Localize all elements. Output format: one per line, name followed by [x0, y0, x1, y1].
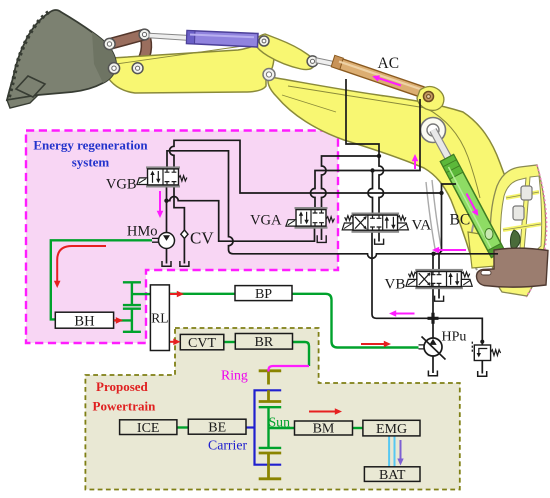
wire junction to VA top-left	[368, 171, 373, 214]
wire VGB bottom-left to HMo	[166, 186, 168, 233]
BC bottom oval detail	[485, 229, 493, 240]
green gear stem lower	[131, 309, 133, 332]
box RL	[150, 285, 169, 351]
wire VB to HPu	[432, 287, 434, 338]
wire relief valve entry	[481, 342, 483, 345]
svg-text:CV: CV	[190, 229, 214, 248]
BC cylinder rod	[433, 130, 450, 161]
green gear symbol top bar	[123, 281, 141, 283]
boom elbow pin	[421, 118, 446, 143]
red arrow RL to CVT	[170, 339, 181, 346]
bucket cylinder rod (white)	[149, 33, 190, 40]
olive planet bar lower	[259, 453, 282, 465]
valve VGB	[137, 166, 187, 187]
tank below HPu	[428, 371, 437, 376]
wire HMo junction to VGA bottom-left	[167, 197, 315, 242]
green link ICE to BE	[177, 426, 188, 428]
green shaft HMo to BH	[51, 240, 152, 319]
wire AC rod-side line down to VA	[346, 79, 384, 213]
svg-text:system: system	[72, 155, 110, 170]
green sun shaft vertical	[267, 407, 269, 448]
svg-text:BE: BE	[208, 421, 226, 436]
wire relief valve to tank	[481, 361, 483, 374]
bucket H-link (brown)	[110, 35, 145, 45]
svg-text:ICE: ICE	[137, 421, 160, 436]
valve VGA	[286, 207, 335, 229]
green link CVT to BR	[224, 341, 236, 343]
AC cylinder rod	[316, 58, 334, 67]
energy regeneration system region (pink)	[26, 131, 338, 344]
green gear link to RL	[132, 293, 151, 295]
cab pads (gray)	[521, 186, 532, 200]
magenta arrow on return line	[432, 247, 466, 254]
green sun shaft to BM	[269, 427, 295, 429]
magenta arrow near pump junction	[389, 310, 415, 317]
wire VA bottom drain to pump junction and relief valve	[372, 230, 482, 341]
wire VGB top-left drain down	[167, 151, 233, 254]
tank bracket VA	[375, 239, 384, 245]
relief valve	[474, 345, 500, 361]
svg-text:Powertrain: Powertrain	[93, 399, 157, 414]
box BH	[55, 312, 113, 329]
green link BR down to ring	[293, 342, 310, 366]
yellow arm (stick)	[103, 40, 274, 93]
tank below CV	[180, 261, 189, 266]
red arrow from HMo flow	[54, 246, 106, 288]
hydraulic motor HMo	[152, 233, 175, 249]
svg-text:VGB: VGB	[106, 177, 137, 193]
hydraulic pump HPu	[419, 337, 446, 360]
green shaft RL to BP to HPu	[169, 294, 418, 348]
box BR	[235, 334, 292, 351]
wire VA bottom stub	[378, 230, 380, 241]
bold cross junction at pump	[428, 313, 439, 324]
green sun bars	[259, 407, 282, 448]
svg-text:HPu: HPu	[442, 330, 467, 345]
arm inner line	[116, 45, 250, 64]
svg-text:BP: BP	[255, 287, 272, 302]
purple cylinder rear pin	[259, 36, 269, 46]
tank below HMo	[162, 261, 171, 266]
wire VGB top-right to boom cylinder upper port	[170, 140, 442, 193]
bucket body (olive)	[7, 10, 116, 100]
svg-text:VA: VA	[412, 218, 432, 234]
red arrow above BM	[309, 408, 342, 415]
box BM	[295, 421, 353, 437]
cab handrail	[471, 222, 477, 270]
proposed powertrain region (khaki)	[85, 328, 459, 490]
AC cylinder front pin	[307, 56, 318, 67]
wire main return line y=254	[233, 254, 498, 259]
wire AC line to VGA top-right	[322, 156, 380, 209]
bucket lower tail	[7, 95, 38, 108]
BC cylinder end cap	[488, 243, 505, 257]
linkage pins	[139, 29, 150, 40]
svg-text:Sun: Sun	[269, 415, 291, 430]
excavator cab body (yellow)	[490, 165, 545, 296]
arm/boom pivot pin	[263, 69, 275, 81]
wire VB bottom stub to tank	[438, 287, 440, 299]
box BAT	[364, 467, 420, 483]
bucket pins	[104, 38, 115, 49]
wire VGB bottom-right through check valve CV	[174, 186, 184, 263]
svg-text:BAT: BAT	[379, 468, 406, 483]
AC cylinder barrel (tan)	[332, 56, 424, 97]
box EMG	[363, 420, 420, 437]
svg-text:Energy regeneration: Energy regeneration	[33, 138, 148, 153]
excavator cab pink dotted clip edge	[526, 165, 547, 297]
wire HPu to tank	[432, 356, 434, 373]
red arrow RL to BP	[170, 291, 184, 298]
excavator boom (yellow, continuous band from arm to cab base)	[268, 77, 516, 260]
box CVT	[180, 334, 224, 351]
arm top bracket (yellow)	[255, 34, 314, 70]
box BE	[188, 419, 246, 435]
check valve CV	[181, 230, 188, 238]
svg-text:Carrier: Carrier	[208, 438, 247, 453]
svg-text:EMG: EMG	[376, 422, 407, 437]
wire VGA bottom stub to tank	[321, 228, 323, 240]
wire relief valve pilot dashed	[471, 342, 473, 353]
bucket teeth	[9, 11, 50, 97]
cab yellow foot columns	[468, 232, 496, 268]
BC cylinder barrel (green)	[440, 155, 504, 258]
olive ring gear bar	[259, 371, 282, 385]
valve VB	[406, 269, 472, 289]
blue carrier link from BE	[246, 426, 255, 428]
svg-text:HMo: HMo	[127, 224, 158, 240]
svg-text:RL: RL	[151, 311, 168, 326]
violet arrow EMG to BAT	[397, 440, 403, 466]
green gear stem upper	[131, 282, 133, 304]
svg-text:Ring: Ring	[221, 368, 248, 383]
green gear link from BH	[114, 319, 132, 321]
green link BM to EMG	[353, 427, 363, 429]
cab roll frame tubes (yellow)	[503, 192, 541, 230]
svg-text:CVT: CVT	[188, 336, 216, 351]
red arrow to HPu	[361, 341, 391, 348]
svg-text:BH: BH	[74, 313, 95, 329]
svg-text:VB: VB	[385, 277, 406, 293]
magenta arrow up near boom	[412, 154, 419, 169]
red arrow BH to gear	[114, 317, 123, 324]
cab dark green engine parts	[510, 230, 520, 248]
wire HMo to tank	[166, 249, 168, 264]
valve VA	[342, 213, 408, 233]
svg-text:BR: BR	[255, 335, 274, 350]
blue carrier frame	[255, 390, 282, 464]
tank below relief valve	[478, 371, 487, 376]
svg-text:BC: BC	[450, 212, 471, 229]
bucket cylinder barrel (purple)	[187, 31, 259, 48]
tank bracket VB	[435, 296, 444, 302]
magenta arrow on BC cylinder	[467, 194, 479, 216]
tank bracket VGA	[317, 235, 326, 242]
wire AC piston-side line to VGA top-left	[311, 99, 421, 209]
AC rear lug (yellow)	[417, 87, 444, 111]
magenta ring link from BR	[269, 366, 310, 372]
cab brown base	[477, 248, 549, 287]
svg-text:Proposed: Proposed	[96, 379, 149, 394]
wire boom cylinder upper port	[435, 184, 456, 254]
olive planet bar upper	[259, 390, 282, 401]
svg-text:AC: AC	[378, 55, 400, 72]
cab window cutouts (white)	[500, 178, 526, 260]
bucket tooth plate (parallelogram)	[16, 76, 45, 97]
svg-text:VGA: VGA	[250, 213, 282, 229]
box BP	[235, 286, 292, 302]
boom hoses (gray)	[426, 180, 442, 254]
boom inner edge line	[288, 86, 480, 198]
bucket linkage curved link (brown)	[138, 35, 146, 68]
wire junction down to VB top ports	[433, 254, 439, 271]
green gear double bars	[123, 305, 141, 309]
green gear bottom bar	[123, 331, 141, 333]
box ICE	[120, 420, 177, 436]
AC rear pin	[424, 92, 434, 102]
svg-text:BM: BM	[313, 422, 335, 437]
magenta arrow below VGB	[157, 191, 164, 218]
olive bottom bar	[259, 465, 282, 479]
junction dots	[164, 154, 484, 344]
bucket bracket shade	[92, 32, 116, 83]
magenta arrow on AC cylinder	[372, 75, 401, 85]
cyan electric link EMG to BAT	[389, 436, 394, 467]
